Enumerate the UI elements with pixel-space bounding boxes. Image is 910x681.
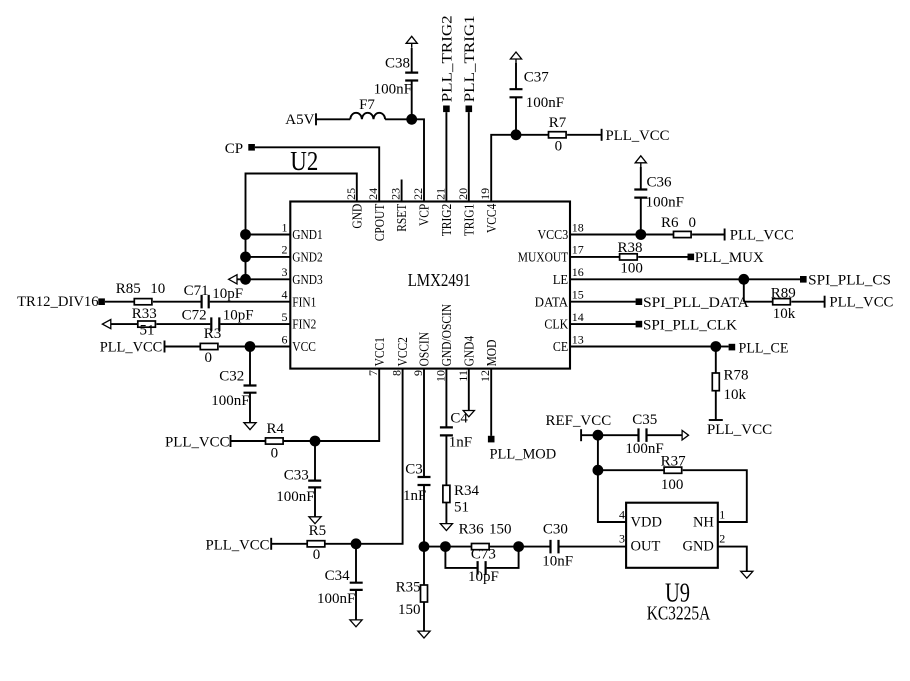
resistor R4	[266, 438, 284, 444]
svg-text:R37: R37	[661, 453, 687, 469]
resistor R7	[549, 132, 567, 138]
wire pin18 VCC3	[570, 234, 641, 236]
svg-text:18: 18	[572, 220, 584, 234]
power bar PLL_VCC below R78	[709, 419, 723, 421]
svg-text:VCC1: VCC1	[372, 337, 387, 366]
wire F7 to junction	[385, 118, 412, 120]
svg-text:6: 6	[282, 332, 288, 346]
wire pin10 down to C4	[445, 369, 447, 428]
svg-text:C38: C38	[385, 55, 410, 71]
svg-text:R38: R38	[618, 240, 643, 256]
wire R3 to pin6 VCC	[219, 346, 290, 348]
wire C38 upper	[411, 48, 413, 73]
svg-text:100nF: 100nF	[276, 489, 314, 505]
svg-text:SPI_PLL_CS: SPI_PLL_CS	[808, 273, 891, 289]
svg-text:R36: R36	[459, 522, 485, 538]
wire pin15 DATA	[570, 301, 636, 303]
svg-text:10nF: 10nF	[542, 554, 573, 570]
svg-text:PLL_MOD: PLL_MOD	[490, 446, 557, 462]
wire PLL_TRIG2 to pin21	[445, 112, 447, 201]
svg-text:GND3: GND3	[292, 272, 323, 287]
wire REF_VCC to junction	[581, 434, 598, 436]
svg-text:C32: C32	[219, 368, 244, 384]
svg-text:RSET: RSET	[394, 203, 409, 232]
wire junction to pin7 VCC1	[315, 369, 379, 441]
svg-text:C34: C34	[325, 568, 351, 584]
wire junction to pin8 VCC2	[356, 369, 403, 544]
port bar REF_VCC	[580, 429, 582, 441]
capacitor C71	[202, 295, 209, 309]
wire PLL_VCC to R5	[271, 543, 307, 545]
svg-text:PLL_MUX: PLL_MUX	[695, 250, 764, 266]
svg-text:0: 0	[313, 547, 321, 563]
svg-text:0: 0	[689, 215, 697, 231]
wire C72 to pin5 FIN2	[220, 323, 290, 325]
svg-text:SPI_PLL_DATA: SPI_PLL_DATA	[643, 295, 749, 311]
wire R85 to C71	[153, 301, 201, 303]
wire C34 to ground	[355, 590, 357, 620]
svg-text:C73: C73	[471, 547, 496, 563]
svg-text:10pF: 10pF	[468, 569, 499, 585]
svg-text:CLK: CLK	[544, 317, 568, 332]
svg-text:U2: U2	[290, 146, 318, 176]
wire to SPI_PLL_CS	[744, 278, 800, 280]
svg-text:11: 11	[456, 370, 470, 382]
wire C32 to ground	[249, 393, 251, 423]
svg-text:R33: R33	[132, 306, 157, 322]
wire pin16 LE	[570, 278, 744, 280]
svg-text:PLL_TRIG2: PLL_TRIG2	[440, 15, 456, 102]
wire R89 to PLL_VCC	[791, 301, 824, 303]
capacitor C34	[350, 583, 363, 590]
wire junction down to C32	[249, 347, 251, 386]
capacitor C38	[405, 73, 418, 81]
off-page arrow at R33	[102, 320, 110, 329]
op-amp U2 LMX2491 body	[290, 202, 570, 369]
svg-text:C3: C3	[405, 461, 423, 477]
resistor R89	[773, 299, 791, 305]
capacitor C72	[211, 317, 219, 331]
wire R33 to C72	[156, 323, 210, 325]
svg-text:R89: R89	[771, 285, 796, 301]
wire LE junction down	[743, 279, 745, 301]
svg-text:VDD: VDD	[631, 515, 662, 531]
ground below U9	[741, 571, 753, 578]
capacitor C33	[308, 481, 321, 488]
wire junction down to C33	[314, 441, 316, 481]
svg-text:8: 8	[390, 370, 404, 376]
svg-text:TRIG2: TRIG2	[439, 204, 454, 237]
svg-text:TRIG1: TRIG1	[461, 204, 476, 237]
junction pin2	[240, 252, 251, 263]
wire GND bus pin25 to pins1-3	[246, 174, 357, 280]
svg-text:5: 5	[282, 310, 288, 324]
junction OSC node A	[419, 541, 430, 552]
svg-text:51: 51	[454, 500, 469, 516]
junction OSC node B	[440, 541, 451, 552]
svg-text:150: 150	[398, 602, 421, 618]
wire C33 to ground	[314, 487, 316, 516]
wire C37 lower	[515, 97, 517, 135]
svg-text:MUXOUT: MUXOUT	[518, 250, 569, 265]
svg-text:CE: CE	[553, 339, 568, 354]
wire junction to C35	[598, 434, 638, 436]
svg-text:20: 20	[456, 188, 470, 200]
off-page arrow right of C35	[682, 430, 688, 440]
junction R5 node	[351, 538, 362, 549]
svg-text:PLL_VCC: PLL_VCC	[165, 434, 230, 450]
svg-text:0: 0	[555, 138, 563, 154]
svg-text:13: 13	[572, 332, 584, 346]
capacitor C35	[639, 428, 647, 442]
capacitor C32	[244, 386, 257, 393]
svg-text:100nF: 100nF	[625, 441, 663, 457]
junction LE node	[738, 274, 749, 285]
svg-text:OUT: OUT	[631, 539, 661, 555]
svg-text:R3: R3	[204, 326, 222, 342]
svg-text:R5: R5	[309, 523, 327, 539]
net square SPI_PLL_DATA	[636, 298, 643, 305]
wire R7 to PLL_VCC	[567, 134, 602, 136]
ground below R35	[418, 631, 430, 638]
capacitor C30	[551, 540, 559, 554]
wire junction to R37	[598, 469, 664, 471]
svg-text:100nF: 100nF	[211, 393, 249, 409]
svg-text:1: 1	[282, 220, 288, 234]
wire REF junction down	[597, 435, 599, 470]
junction pin1	[240, 229, 251, 240]
svg-text:17: 17	[572, 243, 584, 257]
wire PLL_VCC to R3	[165, 346, 201, 348]
svg-text:KC3225A: KC3225A	[647, 603, 711, 625]
wire junction to R6	[641, 234, 674, 236]
svg-text:R4: R4	[267, 421, 285, 437]
svg-text:16: 16	[572, 265, 584, 279]
svg-text:VCC3: VCC3	[538, 227, 569, 242]
svg-text:10: 10	[433, 370, 447, 382]
wire pin13 CE	[570, 346, 716, 348]
capacitor C37	[510, 89, 523, 97]
capacitor C36	[634, 190, 647, 198]
junction A5V node	[406, 114, 417, 125]
wire R5 to junction	[325, 543, 356, 545]
resistor R36	[472, 544, 490, 550]
wire CP to pin24 CPOUT	[255, 147, 379, 201]
wire R37 to U9 NH	[683, 470, 747, 522]
wire R4 to junction	[283, 440, 315, 442]
svg-text:CP: CP	[225, 141, 243, 157]
net square PLL_MOD	[488, 436, 495, 443]
wire C73 right branch	[487, 547, 519, 568]
svg-text:FIN2: FIN2	[292, 317, 316, 332]
wire pin3 GND3	[237, 278, 290, 280]
wire R34 to ground	[445, 503, 447, 524]
ground below C32	[244, 423, 256, 430]
wire node C to C30	[519, 546, 550, 548]
off-page arrow at pin3	[229, 275, 237, 284]
svg-text:1nF: 1nF	[403, 488, 426, 504]
svg-text:51: 51	[140, 323, 155, 339]
svg-text:F7: F7	[359, 97, 375, 113]
svg-text:R85: R85	[116, 281, 141, 297]
svg-text:4: 4	[619, 508, 625, 522]
svg-text:PLL_VCC: PLL_VCC	[206, 538, 270, 554]
svg-text:1nF: 1nF	[449, 435, 472, 451]
svg-text:VCC: VCC	[292, 339, 316, 354]
junction C37 node	[511, 129, 522, 140]
svg-text:C35: C35	[632, 412, 657, 428]
svg-text:LE: LE	[553, 272, 569, 287]
svg-text:TR12_DIV16: TR12_DIV16	[17, 294, 99, 310]
wire C35 to arrow	[648, 434, 683, 436]
svg-text:2: 2	[282, 243, 288, 257]
wire pin9 OSCIN down	[423, 369, 425, 477]
wire C30 to U9 OUT	[560, 546, 627, 548]
net square PLL_CE	[729, 344, 736, 351]
svg-text:4: 4	[282, 288, 288, 302]
wire node A to node B	[424, 546, 445, 548]
svg-text:100nF: 100nF	[374, 81, 412, 97]
resistor R37	[664, 467, 682, 473]
wire C36 upper	[640, 167, 642, 190]
svg-text:23: 23	[389, 188, 403, 200]
svg-text:R35: R35	[396, 580, 421, 596]
junction node C	[513, 541, 524, 552]
port bar PLL_VCC at R5	[270, 538, 272, 550]
svg-text:100nF: 100nF	[317, 591, 355, 607]
svg-text:REF_VCC: REF_VCC	[546, 413, 612, 429]
svg-text:14: 14	[572, 310, 584, 324]
svg-text:C30: C30	[543, 522, 568, 538]
wire C3 to junction	[423, 485, 425, 547]
svg-text:LMX2491: LMX2491	[408, 270, 471, 290]
junction C36 node	[635, 229, 646, 240]
svg-text:0: 0	[205, 350, 213, 366]
svg-text:R34: R34	[454, 483, 480, 499]
svg-text:PLL_VCC: PLL_VCC	[606, 128, 670, 144]
wire pin12 MOD down	[490, 369, 492, 436]
wire R6 to PLL_VCC	[692, 234, 725, 236]
wire TR12_DIV16 to R85	[105, 301, 134, 303]
oscillator U9 KC3225A body	[626, 503, 718, 568]
resistor R3	[200, 343, 218, 349]
svg-text:FIN1: FIN1	[292, 294, 316, 309]
junction CE node	[710, 341, 721, 352]
net square TR12_DIV16	[98, 298, 105, 305]
wire PLL_TRIG1 to pin20	[468, 112, 470, 201]
svg-text:100nF: 100nF	[526, 95, 564, 111]
svg-text:PLL_VCC: PLL_VCC	[707, 422, 772, 438]
resistor R33	[138, 321, 156, 327]
svg-text:NH: NH	[693, 515, 714, 531]
svg-text:GND2: GND2	[292, 250, 322, 265]
svg-text:GND: GND	[349, 203, 364, 228]
wire to PLL_CE square	[716, 346, 729, 348]
svg-text:DATA: DATA	[535, 294, 569, 309]
svg-text:19: 19	[478, 188, 492, 200]
wire R38 to PLL_MUX	[638, 256, 688, 258]
svg-text:10pF: 10pF	[223, 307, 254, 323]
wire junction down to C34	[355, 544, 357, 583]
capacitor C3	[418, 477, 431, 485]
svg-text:3: 3	[619, 532, 625, 546]
svg-text:1: 1	[719, 508, 725, 522]
wire pin1 GND1	[246, 234, 291, 236]
svg-text:VCC4: VCC4	[484, 203, 499, 233]
wire node A down to R35	[423, 547, 425, 585]
svg-text:PLL_VCC: PLL_VCC	[829, 295, 893, 311]
wire U9 GND to ground	[718, 547, 747, 572]
svg-text:PLL_VCC: PLL_VCC	[100, 340, 163, 356]
power arrow above C37	[510, 52, 521, 59]
wire arrow to R33	[111, 323, 138, 325]
wire C71 to pin4 FIN1	[210, 301, 291, 303]
net square PLL_TRIG1	[466, 106, 473, 113]
capacitor C4	[440, 427, 453, 435]
inductor F7	[350, 113, 385, 120]
resistor R5	[307, 541, 325, 547]
junction R37 node	[593, 465, 604, 476]
wire PLL_VCC to R4	[231, 440, 266, 442]
svg-text:OSCIN: OSCIN	[417, 332, 432, 367]
wire pin14 CLK	[570, 323, 636, 325]
svg-text:SPI_PLL_CLK: SPI_PLL_CLK	[643, 317, 737, 333]
svg-text:GND/OSCIN: GND/OSCIN	[439, 304, 454, 367]
svg-text:150: 150	[489, 522, 512, 538]
svg-text:PLL_TRIG1: PLL_TRIG1	[462, 15, 478, 102]
svg-text:PLL_CE: PLL_CE	[739, 341, 789, 357]
resistor R85	[134, 299, 152, 305]
wire R78 to power bar	[715, 391, 717, 420]
svg-text:MOD: MOD	[484, 339, 499, 366]
net square SPI_PLL_CS	[800, 276, 807, 283]
wire C38 lower	[411, 81, 413, 120]
junction pin3	[240, 274, 251, 285]
svg-text:C36: C36	[647, 174, 673, 190]
svg-text:10: 10	[150, 281, 165, 297]
wire C4 to R34	[445, 435, 447, 485]
ground below C34	[350, 620, 362, 627]
junction R4 node	[310, 436, 321, 447]
ground below C33	[309, 517, 321, 524]
svg-text:24: 24	[366, 188, 380, 200]
resistor R38	[620, 254, 638, 260]
svg-text:GND: GND	[682, 539, 713, 555]
svg-text:R78: R78	[724, 368, 749, 384]
wire C36 lower	[640, 198, 642, 235]
svg-text:10pF: 10pF	[212, 286, 243, 302]
svg-text:A5V: A5V	[285, 112, 314, 128]
power arrow above C36	[635, 156, 646, 163]
svg-text:100: 100	[661, 477, 684, 493]
junction REF node	[593, 430, 604, 441]
ground below pin11	[463, 411, 474, 417]
net square PLL_MUX	[688, 254, 695, 261]
svg-text:25: 25	[344, 188, 358, 200]
svg-text:VCC2: VCC2	[395, 337, 410, 366]
junction pin6 node	[245, 341, 256, 352]
wire R36 to node C	[489, 546, 518, 548]
svg-text:C71: C71	[184, 283, 209, 299]
port bar PLL_VCC at R3	[164, 341, 166, 353]
svg-text:VCP: VCP	[417, 204, 432, 226]
svg-text:10k: 10k	[773, 306, 796, 322]
wire C73 left branch	[445, 547, 476, 568]
svg-text:0: 0	[271, 446, 279, 462]
resistor R78	[712, 373, 719, 391]
wire pin19 VCC4 up	[491, 135, 516, 202]
wire node B to R36	[445, 546, 471, 548]
svg-text:C33: C33	[284, 468, 309, 484]
port bar PLL_VCC at R89	[824, 296, 826, 308]
port bar PLL_VCC	[601, 129, 603, 141]
svg-text:100nF: 100nF	[646, 194, 684, 210]
wire pin2 GND2	[246, 256, 291, 258]
wire C37 upper	[515, 63, 517, 89]
port bar PLL_VCC at R6	[724, 229, 726, 241]
svg-text:C37: C37	[524, 69, 550, 85]
svg-text:10k: 10k	[724, 387, 747, 403]
wire R35 to ground	[423, 602, 425, 631]
power arrow above C38	[406, 36, 417, 43]
wire pin11 GND4 down	[468, 369, 470, 411]
port bar A5V	[315, 113, 317, 125]
svg-text:C72: C72	[182, 308, 207, 324]
wire junction to pin22 VCP	[412, 119, 424, 201]
wire to R89	[744, 301, 773, 303]
net square PLL_TRIG2	[443, 106, 450, 113]
svg-text:R6: R6	[661, 215, 679, 231]
svg-text:21: 21	[433, 188, 447, 200]
net square CP	[248, 144, 255, 151]
resistor R34	[443, 485, 450, 502]
svg-text:9: 9	[411, 370, 425, 376]
svg-text:GND1: GND1	[292, 227, 322, 242]
resistor R35	[421, 585, 428, 602]
svg-text:100: 100	[620, 260, 643, 276]
resistor R6	[674, 231, 692, 237]
svg-text:2: 2	[719, 532, 725, 546]
svg-text:12: 12	[478, 370, 492, 382]
wire junction to R7	[516, 134, 549, 136]
wire junction to U9 VDD	[598, 470, 626, 522]
port bar PLL_VCC at R4	[230, 435, 232, 447]
svg-text:CPOUT: CPOUT	[372, 203, 387, 241]
net square SPI_PLL_CLK	[636, 321, 643, 328]
wire A5V to F7	[316, 118, 350, 120]
svg-text:GND4: GND4	[461, 336, 476, 367]
svg-text:22: 22	[411, 188, 425, 200]
wire CE junction down to R78	[715, 347, 717, 374]
svg-text:15: 15	[572, 288, 584, 302]
ground below R34	[440, 524, 452, 531]
wire pin17 MUXOUT	[570, 256, 620, 258]
svg-text:PLL_VCC: PLL_VCC	[730, 227, 794, 243]
U2 pin 23 RSET stub	[401, 180, 403, 202]
capacitor C73	[478, 561, 486, 575]
svg-text:7: 7	[366, 370, 380, 376]
svg-text:3: 3	[282, 265, 288, 279]
svg-text:R7: R7	[549, 115, 567, 131]
